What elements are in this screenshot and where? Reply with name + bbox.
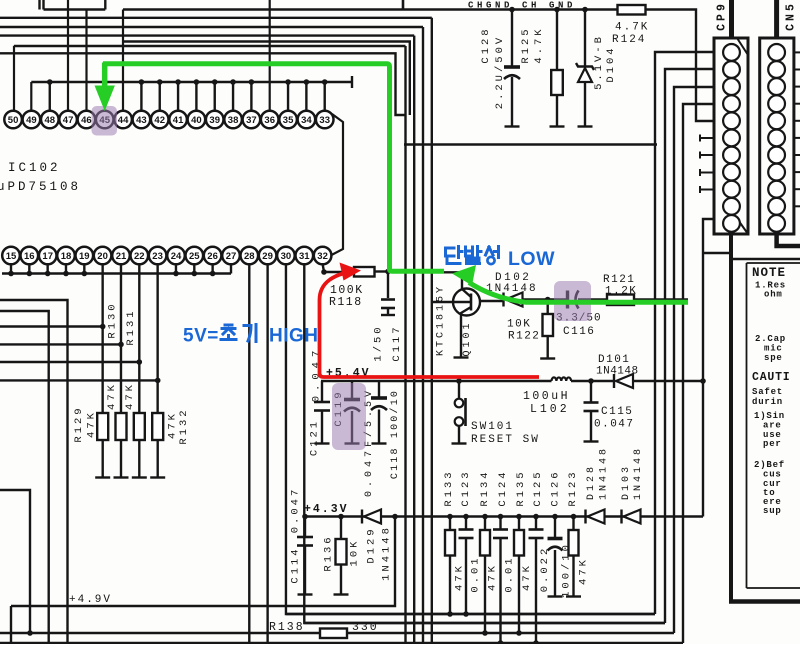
wire corner x48 — [0, 311, 49, 644]
svg-text:41: 41 — [173, 115, 184, 126]
svg-text:L102: L102 — [530, 403, 570, 416]
diode D103 symbol — [620, 510, 622, 524]
svg-text:10K: 10K — [507, 319, 531, 331]
svg-text:R133: R133 — [443, 469, 455, 506]
svg-text:28: 28 — [244, 251, 255, 262]
resistor R121 — [607, 295, 634, 306]
connector CP9 — [714, 38, 748, 234]
svg-text:25: 25 — [189, 251, 200, 262]
wire rail y145 — [404, 143, 657, 145]
capacitor C114 plates — [297, 536, 313, 539]
wire to R132 node — [0, 379, 158, 381]
svg-text:1.2K: 1.2K — [605, 286, 637, 298]
svg-text:NOTE: NOTE — [752, 266, 786, 280]
wire pin32 node — [323, 264, 324, 272]
resistor R125 — [556, 10, 558, 71]
diode D102 — [480, 300, 504, 302]
svg-text:4.7K: 4.7K — [533, 26, 545, 63]
svg-text:47K: 47K — [578, 557, 590, 585]
annotation red wire trace — [320, 274, 540, 378]
svg-text:ohm: ohm — [764, 290, 783, 300]
svg-text:17: 17 — [42, 251, 53, 262]
wire vertical bus x431 — [431, 18, 433, 644]
svg-text:1N4148: 1N4148 — [599, 446, 610, 500]
annotation green arrow at collector node — [452, 265, 476, 286]
svg-text:39: 39 — [209, 115, 220, 126]
node pin35 bus junction — [285, 79, 291, 85]
svg-text:1/50: 1/50 — [373, 324, 385, 361]
IC102 bottom pin circles — [2, 247, 20, 265]
svg-text:C114: C114 — [290, 546, 302, 583]
wire bus line y41 — [123, 42, 410, 116]
svg-text:37: 37 — [246, 115, 257, 126]
capacitor C126 plates — [548, 537, 563, 541]
svg-text:CP9: CP9 — [716, 1, 729, 31]
capacitor C123 plates — [459, 528, 474, 531]
svg-text:R123: R123 — [567, 469, 579, 506]
svg-text:18: 18 — [61, 251, 72, 262]
highlight pin45 — [92, 106, 118, 136]
svg-text:48: 48 — [45, 115, 56, 126]
wire CP9 pin11 down bus — [703, 219, 714, 517]
capacitor C115 plates — [584, 401, 599, 404]
resistor R123 — [572, 517, 574, 531]
svg-text:C118 100/10: C118 100/10 — [389, 389, 401, 479]
connector CN5 right stubs — [794, 51, 800, 53]
svg-text:D104: D104 — [605, 45, 617, 82]
node R122 junction — [545, 297, 551, 303]
svg-text:36: 36 — [264, 115, 275, 126]
svg-text:5.1V-B: 5.1V-B — [593, 34, 605, 90]
capacitor C121 plates — [314, 401, 330, 404]
svg-text:23: 23 — [152, 251, 163, 262]
node pin25 junction — [192, 271, 198, 277]
svg-text:33: 33 — [319, 115, 330, 126]
svg-text:34: 34 — [301, 115, 312, 126]
svg-text:50: 50 — [8, 115, 19, 126]
svg-text:29: 29 — [262, 251, 273, 262]
node pin19 junction — [82, 271, 88, 277]
wire +4.9V rail — [11, 517, 395, 607]
diode D102 symbol — [502, 293, 504, 307]
wire stub to note box — [703, 252, 731, 254]
svg-text:C125: C125 — [532, 469, 544, 506]
svg-text:19: 19 — [79, 251, 90, 262]
capacitor C117 — [387, 272, 389, 299]
node pin16 junction — [27, 271, 33, 277]
node pin38 bus junction — [230, 79, 236, 85]
wire bus line y36 — [0, 34, 414, 36]
svg-text:R131: R131 — [125, 308, 137, 345]
annotation green wire trace — [103, 64, 444, 271]
diode D129 symbol — [361, 510, 363, 524]
resistor R133 — [449, 517, 451, 531]
wire bus line y18 — [0, 17, 432, 19]
wire to R131 node — [0, 361, 139, 363]
svg-text:47: 47 — [63, 115, 74, 126]
capacitor C126 — [554, 517, 556, 538]
wire pin27 stub — [230, 264, 232, 274]
wire top stub a — [38, 0, 40, 10]
svg-text:LOW: LOW — [508, 248, 555, 270]
wire CHGND rail — [123, 8, 618, 10]
svg-text:21: 21 — [116, 251, 127, 262]
svg-text:2)Bef: 2)Bef — [754, 460, 785, 470]
svg-text:43: 43 — [136, 115, 147, 126]
capacitor C116 — [566, 291, 569, 309]
wire bus line y53 jog — [0, 53, 406, 115]
svg-text:Safet: Safet — [752, 387, 783, 397]
resistor R129 — [97, 413, 108, 440]
svg-text:R135: R135 — [515, 469, 527, 506]
IC102 top pin circles — [4, 111, 22, 129]
capacitor C128 plates — [504, 65, 520, 69]
svg-text:R129: R129 — [73, 405, 85, 442]
svg-text:100uH: 100uH — [523, 390, 570, 403]
svg-text:Q101: Q101 — [462, 320, 473, 356]
wire CP9 top stub — [729, 0, 734, 38]
resistor R131 — [134, 413, 145, 440]
svg-text:R125: R125 — [520, 26, 532, 63]
svg-text:49: 49 — [26, 115, 37, 126]
svg-text:CN5: CN5 — [785, 1, 798, 31]
svg-text:spe: spe — [764, 353, 783, 363]
svg-text:46: 46 — [81, 115, 92, 126]
ground tick top — [402, 0, 405, 10]
annotation green arrow down at pin45 — [95, 86, 115, 112]
resistor R132 — [152, 413, 163, 440]
annotation green curve to C116 — [469, 283, 688, 303]
node SW101 — [456, 378, 462, 384]
svg-text:22: 22 — [134, 251, 145, 262]
capacitor C125 plates — [529, 528, 544, 531]
svg-text:5V=: 5V= — [183, 326, 219, 347]
wire bottom pin bus — [2, 272, 231, 274]
svg-text:RESET SW: RESET SW — [471, 434, 540, 446]
wire rail y9 left segment — [44, 8, 106, 10]
IC102 top pin wires — [13, 46, 15, 111]
svg-text:47K: 47K — [86, 410, 98, 438]
svg-text:cus: cus — [763, 470, 782, 480]
svg-text:KTC1815Y: KTC1815Y — [436, 284, 447, 356]
node pin34 bus junction — [304, 79, 310, 85]
svg-text:HIGH: HIGH — [269, 326, 319, 347]
wire bus x674 — [674, 87, 714, 633]
svg-text:47K: 47K — [521, 563, 533, 591]
node pin39 bus junction — [212, 79, 218, 85]
node x703 junction — [700, 378, 706, 384]
wire CN5 top stub — [774, 0, 779, 38]
svg-text:are: are — [763, 421, 782, 431]
wire +4.3V bus — [305, 515, 703, 517]
svg-text:R130: R130 — [107, 301, 119, 338]
wire collector node — [388, 272, 462, 289]
svg-text:30: 30 — [281, 251, 292, 262]
resistor R130 — [116, 413, 127, 440]
svg-text:C123: C123 — [460, 469, 472, 506]
svg-text:16: 16 — [24, 251, 35, 262]
svg-text:40: 40 — [191, 115, 202, 126]
resistor R122 — [547, 300, 549, 315]
highlight C116 — [554, 281, 591, 321]
wire rail y614 — [286, 613, 655, 615]
svg-text:2.2U/50V: 2.2U/50V — [494, 35, 506, 109]
wire vertical bus x414 — [413, 36, 415, 644]
node pin48 bus junction — [47, 79, 53, 85]
svg-text:CAUTI: CAUTI — [752, 371, 791, 384]
wire bus x683 — [683, 104, 714, 643]
svg-text:38: 38 — [228, 115, 239, 126]
wire pin31 to bottom rail — [304, 264, 665, 623]
svg-text:10K: 10K — [349, 539, 361, 567]
svg-text:IC102: IC102 — [8, 161, 61, 175]
wire corner x67 — [0, 300, 68, 644]
wire R124 to CP9 — [646, 10, 715, 122]
node pin40 bus junction — [194, 79, 200, 85]
svg-text:0.01: 0.01 — [504, 555, 516, 592]
svg-text:per: per — [763, 439, 782, 449]
wire pin30 to bottom rail — [286, 264, 655, 614]
wire rail y633 — [0, 632, 674, 634]
svg-text:0.047: 0.047 — [290, 487, 302, 534]
svg-text:D101: D101 — [598, 354, 630, 366]
node C115 — [588, 378, 594, 384]
connector CP9 left stubs — [700, 137, 714, 139]
capacitor C121 — [321, 381, 323, 401]
inductor L102 — [321, 380, 552, 382]
capacitor C125 — [535, 517, 537, 530]
resistor R124 — [618, 5, 646, 15]
node pin33 bus junction — [322, 79, 328, 85]
annotation red arrow at pin32 node — [340, 263, 362, 281]
svg-text:4.7K: 4.7K — [615, 22, 649, 34]
svg-text:47K: 47K — [106, 382, 118, 410]
svg-text:31: 31 — [299, 251, 310, 262]
svg-text:R138: R138 — [269, 621, 305, 634]
resistor R118 — [324, 271, 354, 273]
capacitor C119 plates — [344, 398, 360, 402]
svg-text:R132: R132 — [178, 407, 190, 444]
node pin24 junction — [173, 271, 179, 277]
resistor R135 — [518, 517, 520, 531]
svg-text:R124: R124 — [612, 34, 646, 46]
highlight C119 — [332, 383, 366, 450]
wire vertical bus x405 — [404, 46, 406, 644]
capacitor C118 plates — [371, 396, 387, 400]
capacitor C115 — [590, 381, 592, 402]
switch SW101 — [458, 381, 460, 399]
wire to R129 node — [0, 325, 103, 327]
svg-text:47K: 47K — [167, 411, 179, 439]
wire pin28 column — [248, 264, 250, 644]
svg-text:0.047: 0.047 — [594, 419, 635, 431]
svg-text:C124: C124 — [497, 469, 509, 506]
wire bus line y46 — [14, 45, 406, 47]
svg-text:35: 35 — [283, 115, 294, 126]
resistor R138 — [320, 629, 347, 639]
diode D101 symbol — [613, 374, 615, 388]
wire rail y623 — [304, 622, 665, 624]
svg-text:sup: sup — [763, 506, 782, 516]
svg-text:15: 15 — [6, 251, 17, 262]
connector CN5 — [760, 38, 794, 234]
wire CN5 bottom stub — [777, 234, 800, 246]
node pin43 bus junction — [139, 79, 145, 85]
resistor R134 — [484, 517, 486, 531]
svg-text:32: 32 — [317, 251, 328, 262]
svg-text:1N4148: 1N4148 — [381, 525, 393, 581]
node R118 right — [385, 269, 391, 275]
svg-text:uPD75108: uPD75108 — [0, 180, 81, 194]
wire Q101 emitter — [461, 307, 471, 357]
svg-text:SW101: SW101 — [471, 421, 514, 433]
svg-text:0.022: 0.022 — [539, 546, 551, 593]
wire corner x30 — [0, 490, 30, 633]
wire bus line y27 — [0, 26, 423, 28]
wire top stub b — [42, 0, 44, 10]
svg-text:mic: mic — [764, 344, 783, 354]
capacitor C123 — [465, 517, 467, 530]
annotation korean text danbalseong LOW — [446, 247, 463, 264]
svg-text:durin: durin — [752, 397, 783, 407]
svg-text:R118: R118 — [329, 296, 363, 309]
svg-text:R136: R136 — [323, 534, 335, 571]
svg-text:+4.9V: +4.9V — [69, 594, 112, 606]
svg-text:C121: C121 — [309, 419, 321, 456]
svg-text:CHGND CH GND: CHGND CH GND — [468, 1, 576, 11]
wire pin20-23 columns — [101, 264, 103, 413]
capacitor C118 — [378, 381, 380, 397]
wire pin33 to pin32 hook — [332, 114, 344, 255]
wire branch up to edge — [104, 0, 106, 10]
diode D104 zener — [584, 10, 586, 67]
svg-text:1)Sin: 1)Sin — [754, 411, 785, 421]
wire rail y643 — [0, 642, 683, 644]
svg-text:47K: 47K — [487, 563, 499, 591]
wire bus x655 — [655, 52, 714, 614]
wire to R130 node — [0, 343, 121, 345]
svg-text:1N4148: 1N4148 — [596, 366, 639, 378]
svg-text:C117: C117 — [391, 324, 403, 361]
svg-text:27: 27 — [226, 251, 237, 262]
svg-text:D129: D129 — [366, 526, 378, 563]
NOTE box frame — [729, 234, 733, 602]
svg-text:2.Cap: 2.Cap — [755, 334, 786, 344]
svg-text:+4.3V: +4.3V — [304, 503, 349, 516]
svg-text:47K: 47K — [124, 382, 136, 410]
svg-text:R134: R134 — [479, 469, 491, 506]
svg-text:47K: 47K — [454, 563, 466, 591]
resistor R136 — [340, 517, 342, 540]
node pin15 junction — [8, 271, 14, 277]
svg-text:42: 42 — [154, 115, 165, 126]
svg-text:26: 26 — [207, 251, 218, 262]
svg-text:C126: C126 — [550, 469, 562, 506]
svg-text:R121: R121 — [603, 274, 635, 286]
svg-text:0.01: 0.01 — [470, 555, 482, 592]
svg-text:44: 44 — [118, 115, 129, 126]
node pin41 bus junction — [175, 79, 181, 85]
svg-text:C128: C128 — [480, 26, 492, 63]
wire Q101 base — [432, 301, 471, 303]
wire top pin bus — [31, 81, 352, 83]
capacitor C128 — [511, 10, 513, 67]
capacitor C124 — [499, 517, 501, 530]
node pin42 bus junction — [157, 79, 163, 85]
node pin17 junction — [45, 271, 51, 277]
diode D128 symbol — [584, 510, 586, 524]
capacitor C117 plates — [381, 298, 395, 301]
capacitor C124 plates — [493, 528, 508, 531]
svg-text:330: 330 — [352, 621, 379, 634]
capacitor C119 — [351, 381, 353, 399]
svg-text:D128: D128 — [586, 464, 597, 500]
svg-text:1N4148: 1N4148 — [633, 446, 644, 500]
node pin26 junction — [210, 271, 216, 277]
node pin37 bus junction — [249, 79, 255, 85]
svg-text:C115: C115 — [601, 406, 633, 418]
wire vertical bus x423 — [422, 27, 424, 644]
svg-text:R122: R122 — [508, 331, 540, 343]
svg-text:20: 20 — [97, 251, 108, 262]
svg-text:D103: D103 — [621, 464, 632, 500]
node pin18 junction — [63, 271, 69, 277]
wire pin29 column — [266, 264, 268, 644]
svg-text:C116: C116 — [563, 326, 595, 338]
wire bus x665 — [665, 69, 714, 623]
capacitor C114 — [304, 517, 306, 537]
svg-text:24: 24 — [171, 251, 182, 262]
transistor Q101 — [453, 289, 480, 316]
